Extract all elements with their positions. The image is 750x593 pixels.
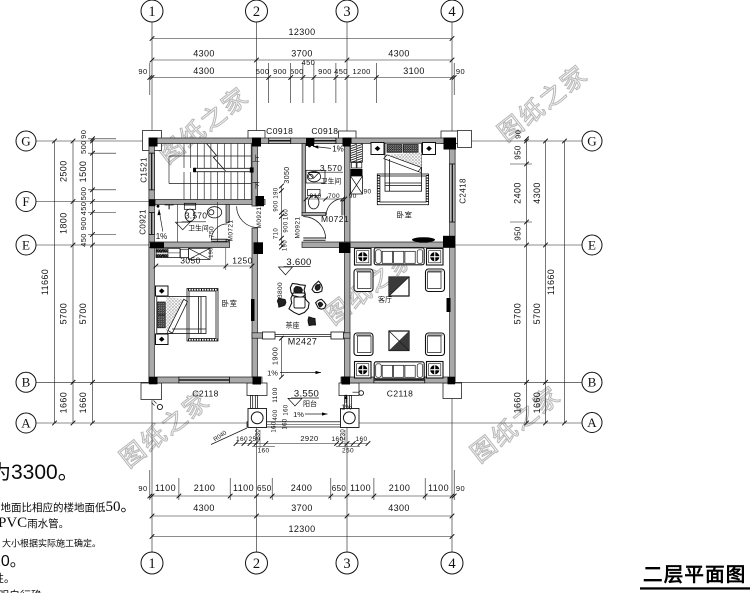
svg-text:810: 810 [309,193,321,200]
grid bubble G left [16,131,36,151]
balcony side parapet right [345,396,352,410]
svg-text:5700: 5700 [59,303,69,325]
svg-text:1%: 1% [332,145,344,154]
svg-text:G: G [21,133,30,148]
svg-text:5700: 5700 [532,303,542,325]
nightstand bedroom2 left [371,143,384,155]
door M0921 stair hall [237,206,258,227]
grid bubble B right [582,372,602,392]
svg-text:卧室: 卧室 [397,210,413,220]
svg-text:C2418: C2418 [459,178,468,204]
grid bubble 4 bottom [441,552,463,574]
svg-text:12300: 12300 [288,524,315,534]
grid bubble G right [582,131,602,151]
svg-text:400: 400 [273,409,279,420]
sofa living south [374,362,424,379]
balcony micro dims [234,421,371,454]
wall bottom exterior B row [149,377,455,383]
dims 810 700 90 middle bath [304,193,357,201]
pilaster piers exterior [141,131,472,400]
svg-text:1100: 1100 [272,387,279,403]
svg-text:阳台: 阳台 [303,399,317,408]
window C2118 right bottom [374,377,425,383]
svg-text:1660: 1660 [513,392,523,414]
grid axis lines [37,22,582,553]
svg-text:3700: 3700 [291,49,313,59]
window C0918 left top [269,138,291,144]
wall left exterior [149,138,155,383]
floor drain left bath [165,204,174,206]
svg-text:3700: 3700 [291,503,313,513]
svg-text:500: 500 [79,187,88,201]
svg-text:1%: 1% [341,403,352,412]
armchair living W1 [354,269,373,292]
grid bubble E right [582,235,602,255]
side table living NE [427,249,444,266]
svg-text:大小根据实际施工确定。: 大小根据实际施工确定。 [2,538,101,549]
svg-text:1100: 1100 [428,483,449,493]
rain pipe left [152,401,163,410]
rain leader R040 [211,428,247,445]
svg-text:C0918: C0918 [311,126,338,136]
svg-text:160: 160 [355,436,367,443]
svg-text:650: 650 [332,484,347,493]
svg-text:900: 900 [318,67,332,76]
svg-text:二层平面图: 二层平面图 [643,564,747,586]
grid bubble 1 bottom [141,552,163,574]
level 3.570 middle bath [308,163,343,179]
svg-text:950: 950 [514,145,523,160]
grid bubble F left [16,192,36,212]
svg-text:客厅: 客厅 [378,295,392,304]
svg-text:4300: 4300 [532,182,542,204]
stair handrail [193,167,253,172]
wall grid2 vertical [252,144,258,378]
level 3.570 left bath [176,211,208,230]
svg-text:90: 90 [456,484,465,493]
svg-text:2100: 2100 [389,483,411,493]
svg-text:A: A [587,415,597,430]
notes text block [0,461,136,593]
svg-text:1500: 1500 [78,161,88,183]
svg-text:1660: 1660 [78,392,88,414]
svg-text:4300: 4300 [193,49,215,59]
wall right exterior [450,138,456,383]
door leaf mark living east wall [447,298,451,312]
watermark 图纸之家 top-left [115,60,594,473]
side table living SE [427,362,444,379]
svg-text:E: E [22,237,30,252]
toilet left bath [184,203,195,221]
svg-text:卫生间: 卫生间 [188,224,209,233]
svg-text:5700: 5700 [513,303,523,325]
svg-text:20。: 20。 [0,553,26,570]
svg-text:3: 3 [343,556,350,572]
svg-text:2: 2 [253,556,260,572]
coffee table living 1 [389,277,409,296]
grid bubble 3 bottom [336,552,358,574]
svg-text:B: B [588,375,597,390]
svg-text:M0921: M0921 [256,207,263,229]
svg-text:12300: 12300 [288,27,315,37]
svg-text:90: 90 [514,130,523,139]
side table living NW [355,249,372,266]
svg-text:1%: 1% [293,410,304,419]
wall bath middle south [302,213,326,216]
svg-text:2100: 2100 [194,483,216,493]
bed bedroom1 [157,297,206,334]
svg-text:230: 230 [256,429,262,440]
svg-text:1660: 1660 [59,392,69,414]
side table living SW [355,362,372,379]
svg-text:1: 1 [148,4,155,20]
rug bedroom1 [187,289,218,342]
window C0918 right top [314,138,336,144]
svg-text:600/600: 600/600 [156,254,168,258]
svg-text:450: 450 [79,202,88,216]
balcony column left [248,409,267,428]
svg-text:4300: 4300 [388,49,410,59]
balcony side parapet left [251,396,258,410]
grid bubble 3 top [336,0,358,22]
svg-text:1200: 1200 [352,67,370,76]
svg-text:90: 90 [363,188,371,195]
door M0721 left bath [211,224,227,241]
svg-text:C1521: C1521 [140,157,149,183]
svg-text:500: 500 [79,140,88,154]
svg-text:C2118: C2118 [387,389,413,399]
svg-text:1100: 1100 [350,483,371,493]
svg-text:160: 160 [284,209,290,220]
grid bubble 4 top [441,0,463,22]
svg-text:C0921: C0921 [139,209,148,235]
svg-text:4: 4 [448,556,456,572]
balcony front parapet [247,422,359,427]
svg-text:11660: 11660 [40,269,50,295]
svg-text:160: 160 [272,421,278,432]
svg-text:B: B [22,375,31,390]
svg-text:2: 2 [253,4,260,20]
wall stair south (F row) [149,200,265,205]
armchair living W2 [354,333,373,356]
level 3.600 tea room [279,257,312,275]
wall E row interior [149,242,455,248]
stair outline [169,156,252,184]
drain point dot [157,205,160,208]
svg-text:茶座: 茶座 [286,321,300,330]
svg-text:160: 160 [284,404,290,415]
svg-text:950: 950 [514,226,523,241]
svg-text:1%: 1% [156,232,168,241]
rain pipe right with 1pct [341,391,363,412]
rug bedroom2 [377,174,428,205]
svg-text:为3300。: 为3300。 [0,461,79,484]
washbasin middle bath [306,170,325,183]
svg-text:3.570: 3.570 [320,163,342,173]
svg-text:11660: 11660 [546,269,556,295]
svg-text:1: 1 [148,556,155,572]
balcony column right [341,409,360,428]
svg-text:190: 190 [274,187,280,198]
svg-text:650: 650 [257,484,272,493]
armchair living E1 [426,269,445,292]
svg-text:900: 900 [274,200,280,211]
svg-text:1250: 1250 [232,256,253,266]
svg-text:C0918: C0918 [266,126,293,136]
grid bubble 1 top [141,0,163,22]
stair flight treads [184,144,251,200]
svg-text:F: F [22,194,29,209]
svg-text:190: 190 [209,247,215,257]
grid bubble E left [16,235,36,255]
dimension columns left [40,130,116,426]
window C2118 left bottom [179,377,230,383]
svg-text:明自行确: 明自行确 [0,589,42,593]
TV on wall bedroom2 [412,237,435,242]
bed bedroom2 [384,143,422,191]
svg-text:500: 500 [256,67,270,76]
drain dot middle bath [308,145,311,148]
svg-text:900: 900 [79,217,88,231]
door M0921 corridor [303,217,325,241]
svg-text:卧室: 卧室 [222,298,238,308]
svg-text:1660: 1660 [532,392,542,414]
svg-text:3.570: 3.570 [185,211,207,221]
dimension rows bottom [138,470,465,539]
wall top exterior [149,138,455,144]
slope arrow 1pct left bath [156,210,168,242]
svg-text:2400: 2400 [291,483,313,493]
door M0721 middle bath [326,199,344,216]
svg-text:E: E [588,237,596,252]
nightstand bedroom2 right [423,143,436,155]
slope arrow 1pct middle bath [313,145,344,154]
svg-text:90: 90 [138,484,147,493]
svg-text:230: 230 [341,429,347,440]
wall tea-room south with M2427 [252,332,350,339]
wall grid3 vertical [345,144,351,378]
flue duct bedroom2 [351,144,372,196]
grid bubble B left [16,372,36,392]
svg-text:1800: 1800 [59,212,69,234]
toilet middle bath [308,190,321,209]
svg-text:90: 90 [79,130,88,139]
grid bubble A right [582,413,602,433]
svg-text:3050: 3050 [284,166,291,183]
window C1521 left [149,153,155,190]
dimension columns right [510,130,567,426]
armchair living E2 [426,333,445,356]
svg-text:160: 160 [283,418,289,429]
coffee table living 2 [389,331,409,351]
washbasin left bath [207,207,221,218]
sofa living north [374,248,424,265]
corridor dim chain [274,166,291,251]
wall bath middle west [302,144,306,216]
nightstand bedroom1 bottom [156,334,169,345]
dimension row top 12300 [138,27,465,103]
svg-text:3100: 3100 [403,66,425,76]
svg-text:2920: 2920 [300,434,318,443]
svg-text:710: 710 [274,228,280,239]
window C2418 right [450,164,456,222]
stair break line [207,144,226,172]
svg-text:1100: 1100 [233,483,254,493]
window C0921 left [149,213,155,235]
dim 1900 inner balcony [270,336,284,379]
svg-text:3050: 3050 [180,256,201,266]
plant pot group tea room [277,281,326,325]
slope arrow balcony [293,410,327,419]
svg-text:4300: 4300 [193,503,215,513]
columns black squares [149,138,456,385]
wardrobe X bedroom1 [189,248,211,259]
svg-text:C2118: C2118 [192,389,218,399]
svg-text:2500: 2500 [59,160,69,182]
title 二层平面图 [640,564,750,590]
wall bath left east [226,205,229,243]
interior dim 3050 1250 bedroom1 [154,248,255,270]
svg-text:A: A [21,415,31,430]
bathroom left partition [177,205,179,243]
svg-text:1%: 1% [267,369,278,378]
svg-text:M0721: M0721 [227,220,234,242]
svg-text:160: 160 [236,436,248,443]
svg-text:600/600: 600/600 [156,249,168,253]
svg-text:3800: 3800 [277,282,284,298]
grid bubble 2 top [246,0,268,22]
svg-text:M0721: M0721 [321,214,349,224]
cabinet row bedroom1 [156,248,189,257]
svg-text:250: 250 [342,448,354,455]
svg-text:卫生间: 卫生间 [321,176,342,185]
svg-text:1900: 1900 [270,347,279,365]
grid bubble 2 bottom [246,552,268,574]
svg-text:90: 90 [456,67,465,76]
svg-text:450: 450 [79,233,88,247]
nightstand bedroom1 top [156,286,169,296]
svg-text:90: 90 [138,67,147,76]
svg-text:5700: 5700 [78,303,88,325]
svg-text:1100: 1100 [155,483,176,493]
grid bubble A left [16,413,36,433]
svg-text:M0921: M0921 [295,217,302,239]
svg-text:4300: 4300 [193,66,215,76]
svg-text:2400: 2400 [513,182,523,204]
svg-text:900: 900 [284,221,290,232]
svg-text:500: 500 [290,67,304,76]
svg-text:性。: 性。 [0,571,15,585]
svg-text:450: 450 [302,58,316,67]
svg-text:M2427: M2427 [288,337,318,347]
svg-text:G: G [587,133,596,148]
svg-text:900: 900 [273,67,287,76]
svg-text:190: 190 [283,240,289,251]
svg-text:下: 下 [252,181,260,190]
door leaf mark bedroom1 east wall [251,299,255,321]
level 3.550 balcony [288,389,319,409]
slope arrow inner balcony [267,369,321,378]
svg-text:4: 4 [448,4,456,20]
svg-text:3: 3 [343,4,350,20]
svg-text:上: 上 [252,154,260,163]
svg-text:4300: 4300 [388,503,410,513]
svg-text:160: 160 [257,448,269,455]
